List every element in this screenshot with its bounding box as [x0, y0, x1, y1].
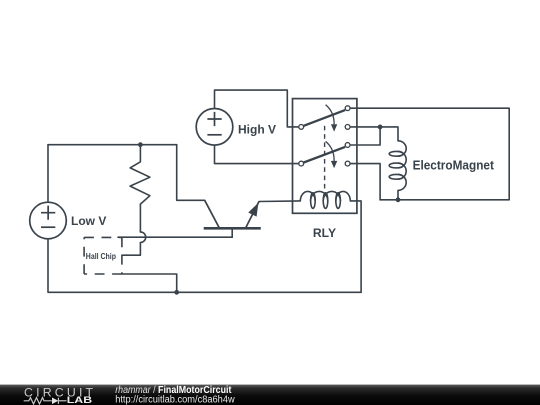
- junction dot EM top: [378, 125, 383, 130]
- relay switch arrow 2: [326, 141, 338, 168]
- relay switch blade 2: [304, 147, 345, 163]
- svg-text:LAB: LAB: [67, 395, 92, 405]
- relay switch blade 1: [304, 110, 345, 126]
- wire Hall chip bottom: [122, 274, 177, 292]
- transistor Q1: [204, 200, 261, 228]
- svg-text:High V: High V: [238, 123, 276, 137]
- wire sw2-NO down-link: [350, 164, 380, 200]
- relay terminal L1: [299, 125, 304, 130]
- inductor EM coil: [389, 141, 406, 191]
- footer bar: [0, 385, 540, 405]
- svg-text:ElectroMagnet: ElectroMagnet: [413, 158, 495, 173]
- wire base to Hall chip: [118, 236, 232, 238]
- resistor R1: [130, 145, 150, 232]
- junction dot resistor top: [138, 142, 143, 147]
- svg-text:Hall Chip: Hall Chip: [86, 252, 116, 261]
- relay dashed link: [324, 126, 326, 190]
- wire High V bottom loop: [215, 145, 299, 164]
- relay switch arrow 1: [326, 105, 338, 132]
- relay RLY box: [293, 99, 357, 214]
- wire bottom rail: [48, 239, 361, 292]
- wire sw1-NO to EM coil top: [350, 127, 398, 141]
- wire sw1-NC big loop: [350, 108, 509, 200]
- voltage source V1 Low V: [30, 202, 67, 239]
- junction dot bottom rail: [174, 290, 179, 295]
- wire top-left rail: [48, 144, 177, 146]
- wire hop over base wire: [140, 232, 145, 243]
- relay coil L1: [300, 191, 350, 208]
- wire emitter to relay coil: [259, 200, 300, 203]
- svg-text:http://circuitlab.com/c8a6h4w: http://circuitlab.com/c8a6h4w: [115, 395, 235, 405]
- relay terminal R3: [345, 143, 350, 148]
- junction dot EM bottom: [396, 197, 401, 202]
- wire EM coil bottom lead: [397, 190, 399, 199]
- wire sw2-NC up-link: [350, 127, 380, 145]
- wire High V top loop: [215, 90, 299, 127]
- logo resistor-diode line: [24, 398, 67, 404]
- wire Low V top lead: [47, 145, 49, 203]
- relay terminal R2: [345, 125, 350, 130]
- relay terminal R4: [345, 161, 350, 166]
- wire collector riser: [177, 145, 205, 201]
- Hall Chip dashed box: [84, 237, 122, 274]
- relay terminal L2: [299, 161, 304, 166]
- wire base drop: [231, 228, 233, 237]
- svg-text:RLY: RLY: [313, 226, 336, 240]
- svg-text:Low V: Low V: [71, 214, 106, 228]
- voltage source V2 High V: [196, 109, 233, 146]
- wire resistor to Hall chip: [122, 243, 140, 256]
- relay terminal R1: [345, 106, 350, 111]
- wire relay coil right drop: [350, 201, 361, 292]
